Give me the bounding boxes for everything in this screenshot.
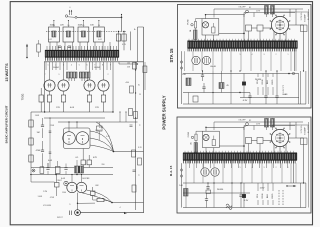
svg-text:15 WATTS: 15 WATTS — [5, 63, 9, 82]
tube V6 envelope — [98, 80, 109, 91]
wire bundle curves — [90, 122, 114, 152]
svg-text:7: 7 — [94, 64, 95, 66]
resistor R6 — [116, 34, 120, 41]
wire V drop from node — [68, 17, 122, 32]
transformer T3 ticks — [184, 160, 296, 163]
svg-text:0.02: 0.02 — [48, 39, 52, 41]
fuse F1 — [194, 19, 202, 40]
svg-text:B+ 300V: B+ 300V — [308, 124, 310, 132]
wire bus bottom — [183, 103, 306, 105]
wire left rail — [30, 112, 32, 168]
wire box2 inner right — [308, 122, 310, 208]
label misc2 — [35, 115, 105, 166]
svg-text:2: 2 — [55, 64, 56, 66]
transformer T1 terminal ticks — [45, 57, 119, 61]
svg-text:GRN: GRN — [262, 193, 264, 198]
wire rail2 box1 — [267, 6, 309, 14]
label 750 ohm — [21, 94, 25, 101]
wire bundle to bus — [113, 151, 144, 153]
tube V2 enclosure — [64, 128, 91, 149]
label leads box1 — [257, 79, 274, 84]
tube V3 envelope — [44, 80, 55, 91]
capacitor CB4 — [206, 183, 209, 190]
choke L2 — [246, 138, 261, 154]
svg-text:270: 270 — [95, 107, 99, 109]
svg-text:6: 6 — [87, 64, 88, 66]
svg-text:8: 8 — [140, 124, 142, 126]
resistor R29 — [40, 167, 44, 174]
capacitor C4 — [46, 163, 49, 169]
svg-text:25: 25 — [53, 25, 55, 27]
wire input bundle — [82, 190, 113, 203]
svg-text:45: 45 — [226, 85, 229, 87]
capacitor CB6 — [239, 183, 242, 208]
resistor RB2 — [271, 119, 275, 131]
wires loops to T1 — [50, 42, 110, 50]
svg-text:6.3V: 6.3V — [122, 44, 127, 46]
wire long verticals box2 — [186, 182, 242, 207]
resistor V6 cathode — [101, 91, 105, 112]
svg-text:1: 1 — [288, 54, 289, 56]
svg-text:ON-OFF: ON-OFF — [238, 7, 246, 9]
wire V3 anode — [49, 62, 51, 80]
wire под band1 stubs — [190, 160, 288, 168]
svg-text:4: 4 — [71, 64, 72, 66]
wire fan feed — [58, 121, 138, 131]
wire V8 right — [288, 138, 303, 183]
can capacitor CA3 — [202, 56, 210, 64]
svg-text:5: 5 — [240, 167, 241, 169]
svg-text:117V 60∼: 117V 60∼ — [301, 124, 303, 133]
resistor RA2 — [271, 6, 275, 18]
resistor R23 — [134, 112, 138, 119]
svg-text:20/450: 20/450 — [217, 189, 224, 191]
resistor RB1 — [265, 119, 269, 131]
pin dots V7 — [276, 20, 284, 31]
svg-text:47K: 47K — [93, 157, 97, 159]
svg-text:GRN: GRN — [262, 79, 264, 84]
can capacitor CA2 — [192, 56, 200, 64]
svg-text:22K: 22K — [60, 25, 64, 27]
capacitor CA7 — [264, 71, 267, 104]
label value row — [56, 107, 99, 109]
wire top horizontal — [75, 14, 122, 18]
capacitor C7 — [133, 170, 136, 172]
svg-text:25: 25 — [139, 94, 141, 96]
feedback loop wires — [49, 27, 105, 42]
svg-text:S1: S1 — [249, 7, 251, 9]
wire bus1 — [183, 72, 299, 74]
rectifier V7 envelope — [271, 16, 288, 33]
rectifier V7 pins — [270, 15, 291, 36]
wire right extension — [119, 62, 138, 65]
label col mid — [138, 94, 142, 149]
capacitor CB1 — [257, 138, 272, 144]
svg-text:VOLUME: VOLUME — [43, 205, 52, 207]
tube V5 envelope — [84, 80, 95, 91]
wires T2 secondary — [185, 51, 297, 71]
svg-text:6: 6 — [70, 7, 71, 9]
wire left edge — [180, 51, 182, 104]
wire T1 baseline — [44, 61, 144, 63]
wire dashed grid bus — [46, 31, 126, 33]
transformer T2 ticks — [188, 48, 296, 51]
wire lead stubs box2 — [258, 183, 273, 205]
resistor R18 — [93, 196, 104, 202]
ticks above T3 — [185, 151, 294, 153]
svg-text:ECC83: ECC83 — [83, 178, 91, 180]
label sta15 bottom — [210, 66, 288, 102]
svg-text:40+40: 40+40 — [210, 66, 217, 68]
wire tube pin stubs — [46, 62, 111, 70]
svg-text:470K: 470K — [50, 197, 55, 199]
svg-text:25K: 25K — [127, 67, 131, 69]
svg-text:12AX7: 12AX7 — [56, 179, 62, 182]
svg-text:0.02: 0.02 — [98, 39, 102, 41]
svg-text:EL84: EL84 — [53, 67, 59, 69]
svg-text:0.25: 0.25 — [106, 136, 110, 138]
svg-text:BASIC AMPLIFIER CIRCUIT: BASIC AMPLIFIER CIRCUIT — [5, 105, 9, 143]
label PE col — [283, 85, 285, 93]
label col values — [139, 83, 142, 176]
svg-text:6.3V CT: 6.3V CT — [283, 85, 285, 93]
node term1 — [191, 24, 193, 26]
svg-text:3: 3 — [264, 167, 265, 169]
capacitor CB5 — [205, 194, 208, 208]
resistor RA4 — [219, 71, 229, 93]
svg-text:TO AMP: TO AMP — [304, 14, 307, 22]
resistor V4 cathode — [61, 91, 65, 112]
svg-text:0.05: 0.05 — [48, 160, 53, 162]
MA15 top wire — [205, 127, 245, 153]
svg-text:4: 4 — [252, 167, 253, 169]
svg-text:4: 4 — [119, 207, 120, 209]
svg-text:750Ω: 750Ω — [21, 94, 25, 101]
tube V2a — [63, 132, 76, 145]
diode D2 — [242, 183, 245, 208]
can capacitor CB3 — [211, 168, 219, 176]
label BASIC AMPLIFIER CIRCUIT — [5, 105, 9, 143]
wire right bus — [138, 27, 144, 213]
capacitor C6 — [130, 125, 133, 127]
lamp holder 2 — [212, 136, 215, 146]
svg-text:ON-OFF: ON-OFF — [238, 120, 246, 122]
label STA 15 — [169, 48, 174, 63]
pin dots V8 — [276, 133, 284, 144]
wires T3 secondary — [186, 163, 296, 183]
wire right verticals ma — [294, 160, 306, 207]
wire tube row right — [112, 62, 114, 112]
svg-text:270: 270 — [56, 107, 60, 109]
resistor RA1 — [265, 6, 269, 18]
wire V8 down — [274, 145, 286, 154]
label mid cluster — [99, 127, 110, 138]
wire V5 anode — [89, 62, 91, 80]
capacitor CA4 — [201, 71, 204, 81]
svg-text:100K: 100K — [35, 115, 40, 117]
wire bus bottom ma — [183, 207, 306, 209]
svg-text:1: 1 — [69, 204, 71, 206]
wire mid bottom 2 — [44, 117, 105, 119]
svg-text:B+: B+ — [134, 29, 137, 31]
label V1 cluster — [50, 179, 66, 199]
label lower — [36, 132, 53, 162]
wire right column — [135, 62, 145, 210]
transformer T1 winding — [45, 50, 119, 57]
resistor R30 — [97, 122, 103, 140]
svg-text:500K: 500K — [38, 196, 43, 198]
svg-text:50: 50 — [98, 25, 100, 27]
wire bus2 — [183, 92, 250, 93]
capacitor C8 — [32, 169, 35, 172]
choke L1 — [246, 25, 261, 41]
wire screen feeds — [118, 31, 131, 51]
resistor R11 — [29, 155, 33, 162]
transformer T3 winding — [183, 153, 297, 160]
resistor R26 — [138, 158, 142, 165]
wire rail2 box2 — [267, 118, 309, 127]
wire mid bottom — [31, 111, 114, 112]
label values top — [50, 25, 95, 27]
svg-text:10K: 10K — [90, 25, 94, 27]
svg-text:140: 140 — [182, 74, 186, 76]
svg-text:0.1: 0.1 — [75, 157, 79, 159]
svg-text:1: 1 — [48, 64, 49, 66]
wire input left rail — [30, 174, 54, 182]
label tubes — [53, 67, 100, 69]
svg-text:TO AMP: TO AMP — [304, 127, 307, 135]
wire bottom row drops — [31, 160, 77, 175]
coupling ticks above T1 — [47, 46, 117, 50]
label right col2 — [301, 124, 310, 144]
svg-text:FUSE: FUSE — [188, 131, 190, 137]
resistor R9 — [29, 120, 33, 127]
ticks above T2 — [189, 39, 294, 41]
svg-text:BLK: BLK — [267, 79, 269, 84]
resistor R28 — [37, 40, 41, 57]
svg-text:2: 2 — [276, 167, 277, 169]
svg-text:470K: 470K — [36, 150, 41, 152]
rectifier V8 envelope — [271, 129, 288, 146]
label mid pins — [45, 74, 109, 76]
svg-text:5: 5 — [79, 64, 80, 66]
capacitor CA5 — [202, 83, 205, 93]
wire V4 anode — [63, 62, 65, 80]
tube V1a — [67, 182, 77, 192]
label box2 top — [238, 120, 260, 126]
wire tube row left — [44, 62, 46, 112]
resistor R15 pair — [75, 166, 84, 173]
wire bottom bus — [80, 212, 143, 214]
svg-text:FUSE: FUSE — [187, 19, 189, 25]
wire V1 feeds — [71, 174, 82, 182]
svg-text:4: 4 — [139, 174, 141, 176]
svg-text:2A: 2A — [189, 29, 192, 32]
AC mains symbol — [226, 204, 232, 210]
resistor RA5 — [193, 96, 198, 102]
wire loop risers — [53, 20, 99, 27]
svg-text:117V: 117V — [256, 11, 261, 13]
wire bus2 ma — [183, 192, 250, 194]
capacitor CA6 — [248, 93, 251, 105]
pilot lamp PL1 — [202, 22, 208, 28]
svg-text:1M: 1M — [37, 132, 40, 134]
svg-text:YEL: YEL — [257, 193, 259, 198]
pilot lamp PL2 — [203, 134, 209, 140]
wire box1 inner right — [308, 9, 310, 104]
svg-text:2: 2 — [276, 54, 277, 56]
label 15 WATTS — [5, 63, 9, 82]
svg-text:M.A. 15: M.A. 15 — [169, 165, 173, 176]
node test point — [64, 181, 68, 185]
svg-text:RED: RED — [272, 193, 274, 198]
jack J1 — [70, 193, 95, 216]
transformer T2 winding — [188, 41, 298, 48]
svg-text:50: 50 — [67, 25, 69, 27]
resistor R17 — [91, 187, 96, 196]
svg-text:INPUT: INPUT — [57, 217, 64, 219]
svg-text:2.2M: 2.2M — [43, 191, 48, 193]
wire V7 right — [288, 25, 303, 71]
grid network G2 — [80, 72, 91, 81]
tube V4 envelope — [58, 80, 69, 91]
wire lower shelf box1 — [240, 74, 299, 105]
svg-text:S2: S2 — [249, 120, 251, 122]
svg-text:B+ 300V: B+ 300V — [308, 11, 310, 19]
wire bus1 ma — [183, 182, 306, 184]
resistor RA3 — [182, 74, 191, 86]
capacitor C2 — [41, 118, 44, 138]
resistor ladder R1-R4 — [52, 31, 101, 37]
node B+ terminal — [65, 7, 72, 17]
capacitor CA8 — [275, 71, 278, 104]
svg-text:8: 8 — [102, 64, 103, 66]
svg-text:1: 1 — [288, 167, 289, 169]
resistor R22 — [129, 109, 133, 116]
label ma15 bottom — [217, 188, 265, 203]
label POWER SUPPLY — [162, 95, 167, 129]
node term2 — [191, 136, 193, 138]
svg-text:STA 15: STA 15 — [169, 48, 174, 63]
switch S1 — [244, 10, 248, 15]
fuse F2 — [194, 131, 202, 152]
resistor R25 — [132, 150, 136, 157]
svg-text:9: 9 — [110, 64, 111, 66]
capacitor C5 — [64, 168, 67, 170]
label box1 top — [238, 7, 260, 13]
wire col x50 — [49, 117, 52, 167]
lamp holder — [212, 23, 215, 33]
label fuse2 texts — [188, 131, 193, 144]
label leads box2 — [257, 193, 274, 198]
svg-text:117V: 117V — [256, 124, 261, 126]
svg-text:0.05: 0.05 — [70, 107, 75, 109]
tube V1b — [76, 182, 86, 192]
resistor RB3 — [179, 185, 188, 196]
label misc1 — [48, 29, 137, 46]
svg-text:2: 2 — [108, 74, 109, 76]
svg-text:4: 4 — [252, 54, 253, 56]
svg-text:220K: 220K — [50, 125, 55, 127]
resistor R20 — [143, 66, 147, 73]
resistor R12 — [81, 149, 86, 168]
tube V2b — [76, 132, 89, 145]
svg-text:6.3V: 6.3V — [244, 200, 249, 202]
wire lower shelf — [31, 167, 113, 169]
resistor V3 cathode — [47, 91, 51, 112]
label misc3 — [43, 185, 121, 219]
svg-text:117V 60∼: 117V 60∼ — [301, 11, 303, 20]
resistor R7 — [122, 34, 126, 41]
STA15 box — [178, 5, 312, 109]
svg-text:BLK: BLK — [267, 193, 269, 198]
wire left edge ma — [180, 163, 182, 207]
capacitor C1 — [58, 46, 71, 48]
input arrow — [26, 44, 28, 59]
wire bundle to right — [111, 202, 143, 204]
STA15 pilot loop — [202, 19, 219, 35]
resistor R14 — [56, 167, 61, 174]
label band2 pins — [240, 167, 289, 169]
wire V6 anode — [103, 62, 105, 80]
svg-text:POWER SUPPLY: POWER SUPPLY — [162, 95, 167, 129]
resistor R19 — [127, 63, 137, 70]
wire long verticals box1 — [189, 70, 241, 104]
label right col top — [301, 11, 310, 31]
wire box1 top rails — [214, 9, 303, 25]
resistor R27 — [132, 185, 136, 192]
wire box2 top rails — [214, 122, 303, 138]
svg-text:16: 16 — [139, 83, 141, 86]
svg-text:390: 390 — [101, 164, 104, 166]
label 0.1 — [75, 157, 97, 159]
capacitor CA1 — [257, 25, 272, 31]
capacitor C9 — [49, 152, 52, 153]
capacitor C3 — [41, 141, 44, 168]
svg-text:117V: 117V — [260, 188, 265, 190]
wire stubs y112 — [119, 111, 126, 122]
resistor V5 cathode — [87, 91, 91, 112]
svg-text:5: 5 — [240, 54, 241, 56]
wire pilot drops b2 — [196, 148, 214, 153]
svg-text:3: 3 — [63, 64, 64, 66]
svg-text:25: 25 — [82, 25, 84, 27]
svg-text:+300: +300 — [125, 82, 129, 84]
svg-text:6.3V: 6.3V — [243, 100, 248, 102]
resistor R21 — [125, 82, 134, 93]
resistor R10 — [29, 138, 33, 145]
label M.A. 15 — [169, 165, 173, 176]
wire V7 down — [274, 32, 286, 42]
svg-text:9: 9 — [59, 74, 60, 76]
label loop values — [53, 25, 100, 27]
rectifier V8 pins — [270, 128, 291, 149]
label fuse texts — [187, 19, 192, 32]
wire bus arrow — [124, 212, 127, 214]
MA15 box — [177, 117, 311, 213]
can capacitor CB2 — [201, 168, 209, 176]
output arrow — [286, 185, 296, 187]
junction dots misc — [202, 70, 304, 183]
diode D1 — [242, 74, 245, 98]
svg-text:RED: RED — [272, 79, 274, 84]
STA15 top wire — [205, 14, 245, 41]
wire right verticals — [295, 48, 306, 104]
grid network G1 — [67, 72, 78, 81]
speaker dashes — [279, 190, 283, 205]
resistor R16 — [55, 175, 60, 197]
wire lead stubs box1 — [258, 74, 273, 96]
